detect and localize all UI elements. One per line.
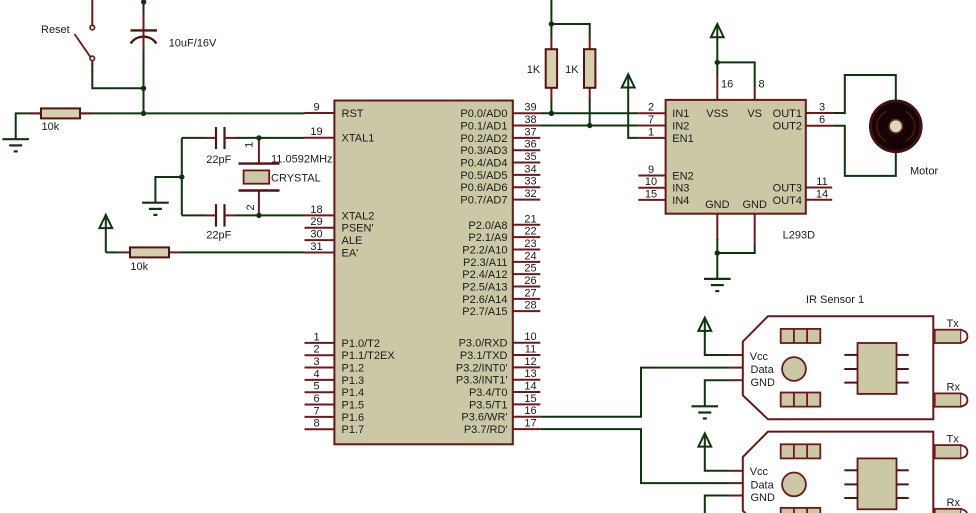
svg-text:23: 23 bbox=[524, 238, 536, 250]
svg-text:P3.6/WR': P3.6/WR' bbox=[461, 412, 507, 424]
svg-text:15: 15 bbox=[524, 393, 536, 405]
svg-text:Tx: Tx bbox=[947, 318, 960, 330]
svg-text:6: 6 bbox=[313, 393, 319, 405]
svg-text:Tx: Tx bbox=[947, 433, 960, 445]
svg-text:GND: GND bbox=[742, 199, 767, 211]
svg-text:IN4: IN4 bbox=[672, 195, 689, 207]
svg-text:P1.2: P1.2 bbox=[342, 363, 365, 375]
svg-text:EN2: EN2 bbox=[672, 171, 693, 183]
svg-text:2: 2 bbox=[245, 204, 257, 210]
svg-text:Data: Data bbox=[751, 364, 775, 376]
svg-text:10k: 10k bbox=[130, 261, 148, 273]
svg-text:2: 2 bbox=[648, 102, 654, 114]
svg-text:Rx: Rx bbox=[947, 382, 961, 394]
svg-text:8: 8 bbox=[313, 418, 319, 430]
svg-text:GND: GND bbox=[751, 492, 776, 504]
svg-text:22pF: 22pF bbox=[206, 230, 231, 242]
svg-text:10: 10 bbox=[645, 176, 657, 188]
svg-text:OUT3: OUT3 bbox=[773, 183, 802, 195]
svg-text:14: 14 bbox=[816, 188, 828, 200]
svg-text:35: 35 bbox=[524, 151, 536, 163]
svg-text:P1.3: P1.3 bbox=[342, 375, 365, 387]
svg-text:VS: VS bbox=[747, 108, 762, 120]
svg-text:P0.4/AD4: P0.4/AD4 bbox=[460, 158, 507, 170]
svg-text:7: 7 bbox=[313, 405, 319, 417]
svg-text:P0.5/AD5: P0.5/AD5 bbox=[460, 170, 507, 182]
svg-text:3: 3 bbox=[819, 102, 825, 114]
svg-text:Vcc: Vcc bbox=[750, 351, 769, 363]
svg-text:P3.5/T1: P3.5/T1 bbox=[469, 399, 508, 411]
svg-text:P3.0/RXD: P3.0/RXD bbox=[459, 338, 508, 350]
svg-text:P3.1/TXD: P3.1/TXD bbox=[460, 350, 508, 362]
svg-text:1: 1 bbox=[243, 142, 255, 148]
svg-text:GND: GND bbox=[751, 377, 776, 389]
svg-text:19: 19 bbox=[310, 126, 322, 138]
svg-text:16: 16 bbox=[524, 405, 536, 417]
svg-text:9: 9 bbox=[648, 164, 654, 176]
svg-text:2: 2 bbox=[313, 344, 319, 356]
svg-text:17: 17 bbox=[524, 418, 536, 430]
svg-text:XTAL2: XTAL2 bbox=[342, 210, 375, 222]
svg-text:31: 31 bbox=[310, 241, 322, 253]
svg-text:37: 37 bbox=[524, 126, 536, 138]
svg-text:XTAL1: XTAL1 bbox=[342, 133, 375, 145]
svg-text:CRYSTAL: CRYSTAL bbox=[271, 172, 321, 184]
svg-text:P0.7/AD7: P0.7/AD7 bbox=[460, 195, 507, 207]
svg-text:22pF: 22pF bbox=[206, 154, 231, 166]
svg-text:P2.5/A13: P2.5/A13 bbox=[462, 282, 507, 294]
svg-text:P1.6: P1.6 bbox=[342, 412, 365, 424]
svg-text:7: 7 bbox=[648, 114, 654, 126]
svg-text:GND: GND bbox=[705, 199, 730, 211]
svg-text:RST: RST bbox=[342, 108, 364, 120]
svg-text:L293D: L293D bbox=[783, 230, 815, 242]
svg-text:27: 27 bbox=[524, 287, 536, 299]
svg-text:9: 9 bbox=[313, 102, 319, 114]
svg-text:IN3: IN3 bbox=[672, 183, 689, 195]
svg-text:P1.1/T2EX: P1.1/T2EX bbox=[342, 350, 396, 362]
svg-text:P2.4/A12: P2.4/A12 bbox=[462, 269, 507, 281]
svg-text:1K: 1K bbox=[565, 64, 579, 76]
svg-text:33: 33 bbox=[524, 176, 536, 188]
svg-text:1K: 1K bbox=[527, 64, 541, 76]
svg-text:24: 24 bbox=[524, 250, 536, 262]
svg-text:P2.6/A14: P2.6/A14 bbox=[462, 294, 507, 306]
svg-text:10: 10 bbox=[524, 331, 536, 343]
svg-text:P3.2/INT0': P3.2/INT0' bbox=[456, 362, 508, 374]
svg-text:34: 34 bbox=[524, 163, 536, 175]
svg-text:32: 32 bbox=[524, 188, 536, 200]
svg-text:10uF/16V: 10uF/16V bbox=[169, 38, 217, 50]
svg-text:Rx: Rx bbox=[947, 497, 961, 509]
svg-text:18: 18 bbox=[310, 204, 322, 216]
svg-text:P1.0/T2: P1.0/T2 bbox=[342, 338, 381, 350]
svg-text:IN2: IN2 bbox=[672, 121, 689, 133]
svg-text:14: 14 bbox=[524, 381, 536, 393]
svg-text:39: 39 bbox=[524, 102, 536, 114]
svg-text:28: 28 bbox=[524, 300, 536, 312]
svg-text:4: 4 bbox=[313, 368, 319, 380]
svg-text:OUT4: OUT4 bbox=[773, 195, 802, 207]
svg-text:21: 21 bbox=[524, 213, 536, 225]
svg-text:22: 22 bbox=[524, 226, 536, 238]
svg-text:P3.3/INT1': P3.3/INT1' bbox=[456, 375, 508, 387]
svg-text:26: 26 bbox=[524, 275, 536, 287]
svg-text:16: 16 bbox=[721, 79, 733, 91]
svg-text:29: 29 bbox=[310, 216, 322, 228]
svg-text:1: 1 bbox=[313, 331, 319, 343]
svg-text:Reset: Reset bbox=[41, 24, 70, 36]
svg-text:P2.0/A8: P2.0/A8 bbox=[468, 220, 507, 232]
svg-text:5: 5 bbox=[313, 381, 319, 393]
svg-text:OUT1: OUT1 bbox=[773, 108, 802, 120]
svg-text:12: 12 bbox=[524, 356, 536, 368]
svg-text:IN1: IN1 bbox=[672, 108, 689, 120]
svg-text:25: 25 bbox=[524, 263, 536, 275]
svg-text:38: 38 bbox=[524, 114, 536, 126]
svg-text:P1.7: P1.7 bbox=[342, 424, 365, 436]
svg-text:11.0592MHz: 11.0592MHz bbox=[271, 154, 333, 166]
svg-text:P0.1/AD1: P0.1/AD1 bbox=[460, 121, 507, 133]
svg-text:P1.5: P1.5 bbox=[342, 400, 365, 412]
svg-text:8: 8 bbox=[759, 79, 765, 91]
svg-text:36: 36 bbox=[524, 139, 536, 151]
svg-text:11: 11 bbox=[525, 344, 536, 356]
svg-text:IR Sensor 1: IR Sensor 1 bbox=[806, 294, 864, 306]
svg-text:3: 3 bbox=[313, 356, 319, 368]
svg-text:P3.4/T0: P3.4/T0 bbox=[469, 387, 508, 399]
svg-text:P0.6/AD6: P0.6/AD6 bbox=[460, 182, 507, 194]
svg-text:10k: 10k bbox=[42, 121, 60, 133]
svg-text:Motor: Motor bbox=[910, 166, 938, 178]
svg-text:15: 15 bbox=[645, 188, 657, 200]
svg-text:P2.1/A9: P2.1/A9 bbox=[468, 232, 507, 244]
svg-text:P2.3/A11: P2.3/A11 bbox=[463, 257, 507, 269]
svg-text:P3.7/RD': P3.7/RD' bbox=[464, 424, 508, 436]
svg-text:OUT2: OUT2 bbox=[773, 121, 802, 133]
svg-text:P0.2/AD2: P0.2/AD2 bbox=[460, 133, 507, 145]
svg-text:11: 11 bbox=[816, 176, 827, 188]
svg-text:EA': EA' bbox=[342, 248, 359, 260]
svg-text:Data: Data bbox=[751, 480, 775, 492]
svg-text:P0.0/AD0: P0.0/AD0 bbox=[460, 108, 507, 120]
svg-text:P2.7/A15: P2.7/A15 bbox=[462, 306, 507, 318]
svg-text:EN1: EN1 bbox=[672, 133, 693, 145]
svg-text:13: 13 bbox=[524, 368, 536, 380]
svg-text:6: 6 bbox=[819, 114, 825, 126]
svg-text:ALE: ALE bbox=[342, 235, 363, 247]
svg-text:P2.2/A10: P2.2/A10 bbox=[462, 244, 507, 256]
svg-text:Vcc: Vcc bbox=[750, 466, 769, 478]
svg-text:P1.4: P1.4 bbox=[342, 387, 365, 399]
svg-text:PSEN': PSEN' bbox=[342, 223, 374, 235]
svg-text:30: 30 bbox=[310, 229, 322, 241]
svg-text:P0.3/AD3: P0.3/AD3 bbox=[460, 145, 507, 157]
svg-text:VSS: VSS bbox=[706, 108, 728, 120]
svg-text:1: 1 bbox=[648, 126, 654, 138]
